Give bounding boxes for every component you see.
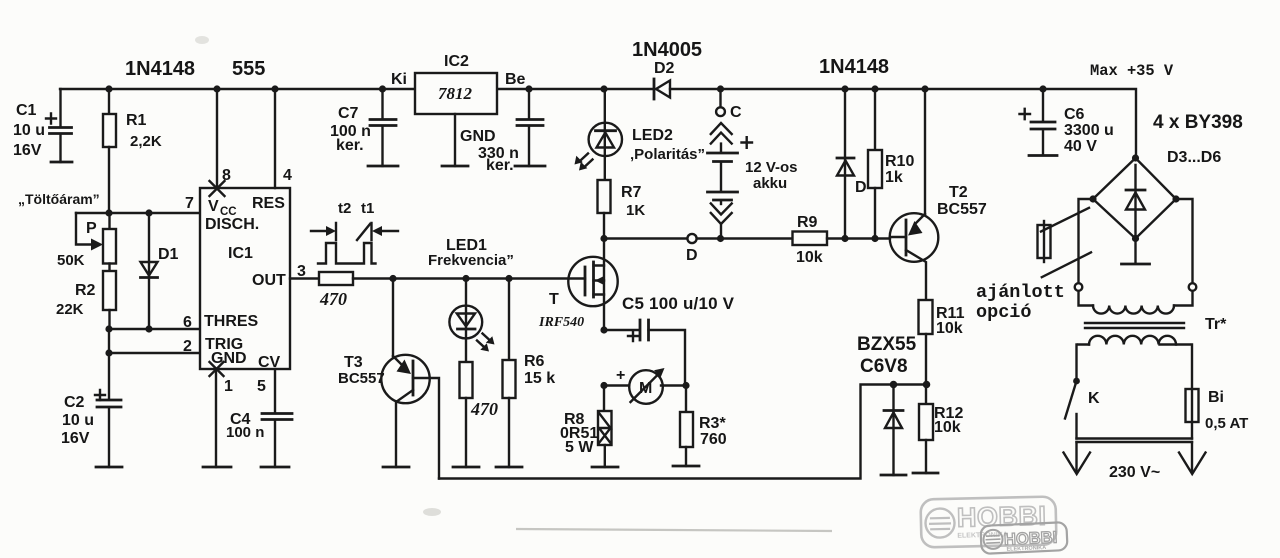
svg-text:10 u: 10 u: [62, 412, 94, 429]
svg-text:D2: D2: [654, 60, 675, 77]
svg-text:1k: 1k: [885, 169, 903, 186]
svg-text:C1: C1: [16, 102, 37, 119]
resistor R8 0R51 5W wirewound: [560, 386, 618, 468]
fuse symbol (option): [1038, 221, 1051, 262]
wire source node to C5: [600, 326, 607, 333]
waveform icon t2 t1: [311, 200, 398, 264]
capacitor C2: [61, 390, 122, 467]
svg-text:BC557: BC557: [937, 201, 987, 218]
svg-text:16V: 16V: [13, 142, 42, 159]
wire comparator row / node D: [604, 237, 687, 239]
leader lines ajanlott opcio: [1041, 208, 1089, 232]
svg-text:opció: opció: [976, 302, 1032, 323]
svg-text:LED2: LED2: [632, 127, 673, 144]
capacitor C6 3300u 40V: [1020, 85, 1114, 155]
svg-text:ker.: ker.: [486, 157, 514, 174]
svg-text:t2: t2: [338, 200, 351, 217]
transistor T2 BC557: [890, 85, 987, 300]
svg-text:3300 u: 3300 u: [1064, 122, 1114, 139]
svg-text:BC557: BC557: [338, 370, 385, 387]
svg-text:P: P: [86, 220, 97, 237]
svg-text:DISCH.: DISCH.: [205, 216, 259, 233]
svg-text:5: 5: [257, 378, 266, 395]
pin 1 GND wire: [203, 362, 233, 467]
motor M: [616, 367, 690, 404]
svg-text:1K: 1K: [626, 202, 645, 219]
svg-text:Ki: Ki: [391, 71, 407, 88]
resistor R12 10k: [913, 385, 963, 474]
svg-text:6: 6: [183, 314, 192, 331]
fuse Bi 0,5 AT: [1186, 345, 1249, 439]
svg-text:4: 4: [283, 167, 292, 184]
pin 5 CV wire and capacitor C4: [226, 369, 292, 467]
diode D2 1N4005: [632, 39, 702, 99]
svg-text:BZX55: BZX55: [857, 334, 917, 355]
svg-text:10k: 10k: [934, 419, 961, 436]
wire top supply bus right segment: [670, 89, 1136, 158]
resistor R7 1K: [598, 180, 646, 242]
svg-text:GND: GND: [460, 128, 496, 145]
mains 230V double line: [1064, 439, 1206, 482]
resistor 470 (LED1 series): [453, 362, 498, 467]
svg-text:C6: C6: [1064, 106, 1085, 123]
svg-text:555: 555: [232, 58, 265, 80]
pin 8 X mark: [210, 181, 225, 196]
svg-text:V: V: [208, 198, 219, 215]
svg-text:R7: R7: [621, 184, 642, 201]
svg-text:T3: T3: [344, 354, 363, 371]
transformer Tr*: [1075, 283, 1227, 344]
svg-text:t1: t1: [361, 200, 374, 217]
svg-text:1: 1: [224, 378, 233, 395]
svg-text:ajánlott: ajánlott: [976, 282, 1065, 303]
svg-text:C6V8: C6V8: [860, 356, 908, 377]
wire node pin7 row: [76, 212, 200, 214]
IC1 555 timer box: [200, 188, 290, 371]
transistor T3 BC557: [338, 279, 439, 479]
resistor R6 15k: [496, 279, 555, 468]
svg-text:‚Polaritás”: ‚Polaritás”: [630, 146, 705, 163]
wire top supply bus middle segment: [494, 88, 654, 90]
svg-text:C5 100 u/10 V: C5 100 u/10 V: [622, 294, 735, 313]
svg-text:THRES: THRES: [204, 313, 259, 330]
svg-text:7: 7: [185, 195, 194, 212]
svg-text:10k: 10k: [796, 249, 823, 266]
svg-text:OUT: OUT: [252, 272, 286, 289]
svg-text:akku: akku: [753, 175, 787, 192]
svg-text:470: 470: [470, 399, 498, 419]
svg-text:C7: C7: [338, 105, 359, 122]
svg-text:Max +35 V: Max +35 V: [1090, 62, 1174, 80]
svg-text:ker.: ker.: [336, 137, 364, 154]
svg-text:15 k: 15 k: [524, 370, 555, 387]
resistor R2 22K: [56, 264, 116, 330]
svg-text:D1: D1: [158, 246, 179, 263]
svg-text:7812: 7812: [438, 84, 473, 103]
bridge rectifier D3..D6: [1089, 154, 1179, 264]
resistor R10 1k: [868, 85, 914, 238]
wire bridge AC left leg: [1079, 199, 1094, 283]
wire gate line: [353, 277, 585, 279]
wire pin 4 RES: [274, 89, 276, 188]
wire pin 8: [216, 89, 218, 188]
zener BZX55 C6V8: [857, 334, 917, 475]
wire bridge AC right leg: [1176, 199, 1193, 283]
svg-text:R9: R9: [797, 214, 818, 231]
svg-text:50K: 50K: [57, 252, 85, 269]
switch K: [1065, 345, 1100, 439]
mosfet T IRF540: [538, 239, 618, 331]
node D terminal: [687, 234, 696, 243]
svg-text:HOBBI: HOBBI: [957, 501, 1047, 533]
svg-text:T: T: [549, 291, 559, 308]
capacitor C7 100n: [330, 85, 398, 166]
resistor R11 10k: [919, 300, 965, 388]
svg-text:IC2: IC2: [444, 53, 469, 70]
svg-text:760: 760: [700, 431, 727, 448]
svg-text:RES: RES: [252, 195, 285, 212]
resistor R1 2,2K: [103, 85, 162, 213]
svg-text:CV: CV: [258, 354, 281, 371]
watermark stamp HOBBI ELEKTRONIKA: [920, 496, 1056, 547]
svg-text:4 x BY398: 4 x BY398: [1153, 112, 1243, 133]
wire pin6 THRES row: [109, 328, 200, 330]
resistor R3* 760: [673, 386, 727, 467]
resistor R9 10k: [793, 214, 891, 266]
svg-text:0,5 AT: 0,5 AT: [1205, 415, 1248, 432]
svg-text:GND: GND: [211, 350, 247, 367]
svg-text:T2: T2: [949, 184, 968, 201]
svg-text:R3*: R3*: [699, 415, 726, 432]
regulator IC2 7812: [391, 53, 526, 166]
wire T3 base long bottom run: [439, 385, 927, 479]
node C terminal and battery 12V akku: [708, 85, 798, 242]
svg-text:K: K: [1088, 390, 1100, 407]
svg-text:470: 470: [319, 289, 347, 309]
svg-text:Tr*: Tr*: [1205, 316, 1227, 333]
capacitor C1: [13, 89, 72, 162]
capacitor C5 100u/10V: [622, 294, 735, 386]
svg-text:R6: R6: [524, 353, 545, 370]
svg-text:Be: Be: [505, 71, 526, 88]
LED LED2: [575, 85, 706, 180]
svg-text:„Töltőáram”: „Töltőáram”: [18, 191, 100, 207]
svg-text:1N4148: 1N4148: [819, 56, 889, 78]
diode D1: [141, 213, 179, 329]
svg-text:10k: 10k: [936, 320, 963, 337]
svg-text:16V: 16V: [61, 430, 90, 447]
LED LED1: [428, 237, 514, 362]
svg-text:IRF540: IRF540: [538, 315, 584, 330]
svg-text:100 n: 100 n: [226, 424, 264, 441]
diode D (1N4148 vertical): [837, 85, 867, 238]
svg-text:R2: R2: [75, 282, 96, 299]
scan artifacts: [195, 36, 209, 44]
svg-text:Frekvencia”: Frekvencia”: [428, 252, 514, 269]
svg-text:230 V~: 230 V~: [1109, 464, 1160, 481]
capacitor 330n: [478, 85, 545, 174]
wire top supply bus left segment: [60, 88, 415, 90]
svg-text:10 u: 10 u: [13, 122, 45, 139]
svg-text:C2: C2: [64, 394, 85, 411]
svg-text:D: D: [686, 247, 698, 264]
svg-text:D: D: [855, 179, 867, 196]
svg-text:1N4148: 1N4148: [125, 58, 195, 80]
svg-text:1N4005: 1N4005: [632, 39, 702, 61]
svg-text:40 V: 40 V: [1064, 138, 1097, 155]
svg-text:IC1: IC1: [228, 245, 253, 262]
svg-text:D3...D6: D3...D6: [1167, 149, 1221, 166]
svg-text:12 V-os: 12 V-os: [745, 159, 798, 176]
svg-text:C: C: [730, 104, 742, 121]
svg-text:2,2K: 2,2K: [130, 133, 162, 150]
svg-text:5 W: 5 W: [565, 439, 594, 456]
svg-text:22K: 22K: [56, 301, 84, 318]
potentiometer P 50K: [57, 213, 116, 269]
resistor 470 (gate series): [290, 272, 353, 309]
wire pin2 TRIG row: [109, 352, 200, 354]
svg-text:R1: R1: [126, 112, 147, 129]
svg-text:+: +: [616, 367, 625, 384]
svg-text:R10: R10: [885, 153, 914, 170]
svg-text:Bi: Bi: [1208, 389, 1224, 406]
svg-text:2: 2: [183, 338, 192, 355]
wire motor row: [600, 382, 607, 389]
